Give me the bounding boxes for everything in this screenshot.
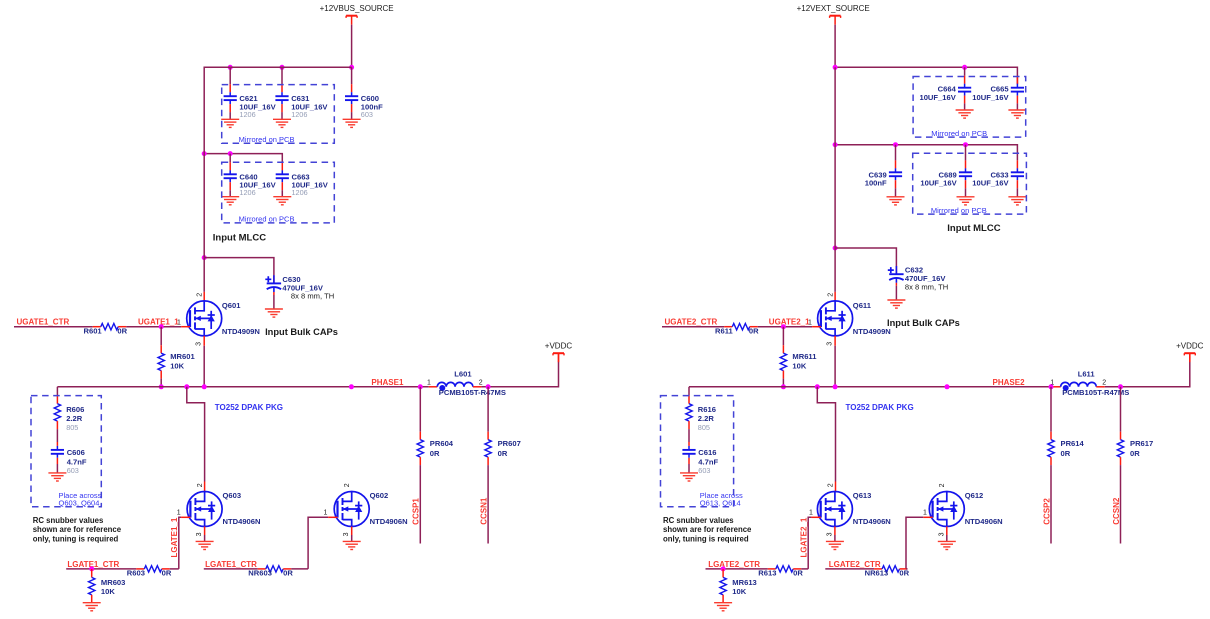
- svg-text:1: 1: [324, 510, 328, 517]
- pin stub Q601 source (3): [203, 336, 205, 346]
- power symbol +VDDC: [1184, 353, 1195, 362]
- wire PR607 to CCSN1: [487, 465, 489, 543]
- svg-text:Q613, Q614: Q613, Q614: [700, 499, 741, 508]
- ground under snubber: [48, 473, 66, 481]
- svg-text:2: 2: [1102, 380, 1106, 387]
- junction UGATE_1 / gate resistor: [781, 324, 786, 329]
- wire rail to snubber: [688, 387, 690, 396]
- wire LGATE1_CTR: [204, 568, 258, 570]
- svg-text:3: 3: [196, 342, 203, 346]
- pin stub C632 1: [895, 266, 897, 274]
- pin stub C633 2: [1016, 180, 1018, 188]
- pin stub Q601 drain (2): [203, 292, 205, 301]
- pin stub R611 1: [724, 326, 732, 328]
- pin stub L601 1: [429, 386, 438, 388]
- transistor Q612 NTD4906N (low side): [929, 492, 964, 527]
- junction MR on phase rail: [159, 384, 164, 389]
- wire Q611 source to phase rail: [834, 346, 836, 387]
- svg-text:1: 1: [808, 319, 812, 326]
- svg-text:3: 3: [343, 532, 350, 536]
- svg-text:PHASE1: PHASE1: [371, 378, 404, 387]
- wire C664 to ground: [964, 103, 966, 110]
- pin stub C631 2: [281, 104, 283, 112]
- svg-text:2: 2: [197, 483, 204, 487]
- pin stub MR613 2: [722, 595, 724, 603]
- svg-text:1206: 1206: [292, 188, 308, 197]
- pin stub R603 2: [162, 568, 170, 570]
- svg-text:Input Bulk CAPs: Input Bulk CAPs: [887, 318, 960, 328]
- pin stub Q601 gate (1): [181, 326, 190, 328]
- wire input bus row 2 right: [835, 145, 1017, 161]
- wire C600 to ground: [351, 112, 353, 119]
- wire UGATE_1 to gate: [758, 326, 812, 328]
- junction MR613 tap: [721, 566, 726, 571]
- capacitor C633: [1011, 168, 1024, 180]
- svg-text:+VDDC: +VDDC: [545, 342, 573, 351]
- svg-text:805: 805: [66, 423, 78, 432]
- svg-text:PR604: PR604: [430, 439, 454, 448]
- resistor R616 2.2R (vertical): [686, 404, 692, 421]
- svg-text:+VDDC: +VDDC: [1176, 342, 1204, 351]
- svg-text:UGATE2_1: UGATE2_1: [769, 317, 810, 326]
- junction C621 tap: [228, 65, 233, 70]
- pin stub C606 2: [56, 458, 58, 464]
- wire rail to snubber: [56, 387, 58, 396]
- pin stub C665 2: [1016, 96, 1018, 104]
- svg-text:0R: 0R: [498, 449, 508, 458]
- wire MR611 top: [782, 327, 784, 346]
- junction C631 tap: [280, 65, 285, 70]
- junction bus row 2 on main: [202, 151, 207, 156]
- svg-text:Mirrored on PCB: Mirrored on PCB: [931, 129, 987, 138]
- ground under C600: [343, 119, 361, 127]
- transistor Q611 NTD4909N (high side): [818, 301, 853, 336]
- junction C664 tap: [962, 65, 967, 70]
- pin stub MR603 2: [91, 595, 93, 603]
- svg-text:0R: 0R: [117, 327, 127, 336]
- svg-text:only, tuning is required: only, tuning is required: [33, 535, 119, 544]
- wire main vertical to high-side FET: [204, 67, 351, 292]
- svg-text:3: 3: [196, 532, 203, 536]
- svg-text:0R: 0R: [283, 568, 293, 577]
- svg-text:3: 3: [938, 532, 945, 536]
- pin stub R601 2: [118, 326, 126, 328]
- svg-text:MR611: MR611: [792, 352, 817, 361]
- pin stub PR614 1: [1050, 432, 1052, 440]
- svg-text:Q603: Q603: [223, 491, 242, 500]
- svg-text:TO252 DPAK PKG: TO252 DPAK PKG: [215, 403, 283, 412]
- junction C640 tap: [228, 151, 233, 156]
- svg-text:805: 805: [698, 423, 710, 432]
- svg-text:8x 8 mm, TH: 8x 8 mm, TH: [905, 282, 948, 291]
- pin stub Q613 source (3): [834, 527, 836, 536]
- svg-text:L611: L611: [1078, 370, 1096, 379]
- pin stub NR603 2: [283, 568, 291, 570]
- pin stub PR617 2: [1120, 457, 1122, 465]
- wire R613 to gate riser: [801, 568, 808, 570]
- pin stub R611 2: [750, 326, 758, 328]
- wire jog rail to Q613 drain: [817, 387, 835, 482]
- pin stub C621 1: [229, 84, 231, 92]
- svg-text:1: 1: [923, 510, 927, 517]
- svg-text:603: 603: [698, 466, 710, 475]
- wire bus to C621: [229, 67, 231, 84]
- ground under C664: [956, 110, 974, 118]
- svg-text:CCSN2: CCSN2: [1112, 497, 1121, 525]
- svg-text:Q611: Q611: [853, 301, 872, 310]
- capacitor C621 10UF_16V: [224, 92, 237, 104]
- resistor PR607 0R (vertical): [485, 440, 491, 457]
- pin stub Q602 source (3): [351, 527, 353, 536]
- wire input bus row 1: [204, 66, 351, 68]
- wire Q603 source to ground: [204, 535, 206, 541]
- svg-text:NR613: NR613: [865, 568, 889, 577]
- svg-text:Input MLCC: Input MLCC: [947, 223, 1000, 234]
- pin stub R616 2: [688, 421, 690, 429]
- ground under C632: [887, 300, 905, 308]
- svg-text:1: 1: [809, 510, 813, 517]
- wire Q612 source to ground: [946, 535, 948, 541]
- dashed box mirrored caps row 1: [222, 85, 335, 144]
- svg-text:NR603: NR603: [248, 568, 272, 577]
- svg-text:NTD4906N: NTD4906N: [853, 517, 891, 526]
- ground under MR603: [83, 603, 101, 611]
- svg-text:R606: R606: [66, 405, 84, 414]
- junction C689 tap: [963, 142, 968, 147]
- wire C689 to ground: [965, 188, 967, 197]
- wire UGATE_CTR: [14, 326, 93, 328]
- capacitor C606 4.7nF: [51, 446, 64, 458]
- resistor PR617 0R (vertical): [1117, 440, 1123, 457]
- wire C631 to ground: [281, 112, 283, 119]
- svg-text:PHASE2: PHASE2: [993, 378, 1026, 387]
- svg-text:Mirrored on PCB: Mirrored on PCB: [931, 206, 987, 215]
- resistor NR603 0R (horizontal): [266, 566, 283, 572]
- ground under snubber: [680, 473, 698, 481]
- pin stub C639 2: [895, 180, 897, 188]
- wire MR601 bottom to phase rail: [160, 379, 162, 387]
- svg-text:NTD4906N: NTD4906N: [370, 517, 408, 526]
- pin stub +VDDC: [558, 354, 560, 362]
- wire C639 to ground: [895, 188, 897, 197]
- junction MR603 tap: [89, 566, 94, 571]
- svg-text:1: 1: [427, 380, 431, 387]
- wire MR601 top: [160, 327, 162, 346]
- ground under Q612: [938, 541, 956, 549]
- wire UGATE_CTR: [662, 326, 724, 328]
- svg-text:LGATE1_1: LGATE1_1: [170, 517, 179, 557]
- resistor PR614 0R (vertical): [1048, 440, 1054, 457]
- ground under MR613: [714, 603, 732, 611]
- svg-text:shown are for reference: shown are for reference: [663, 525, 752, 534]
- svg-text:PR614: PR614: [1061, 439, 1085, 448]
- svg-text:R603: R603: [127, 568, 145, 577]
- pin stub MR601 2: [160, 371, 162, 379]
- wire Q613 source to ground: [834, 535, 836, 541]
- pin stub Q613 gate (1): [811, 516, 820, 518]
- pin stub Q611 gate (1): [812, 326, 821, 328]
- svg-text:C606: C606: [67, 448, 85, 457]
- pin stub +VDDC: [1189, 354, 1191, 362]
- pin stub C632 2: [895, 283, 897, 286]
- pin stub NR603 1: [258, 568, 266, 570]
- svg-text:R616: R616: [698, 405, 716, 414]
- wire R606 to C606: [56, 429, 58, 442]
- svg-text:UGATE1_1: UGATE1_1: [138, 317, 179, 326]
- svg-text:10UF_16V: 10UF_16V: [972, 179, 1009, 188]
- junction MR on phase rail: [781, 384, 786, 389]
- resistor PR604 0R (vertical): [417, 440, 423, 457]
- wire PR607 top: [487, 387, 489, 432]
- pin stub C639 1: [895, 160, 897, 168]
- svg-text:Mirrored on PCB: Mirrored on PCB: [239, 215, 295, 224]
- dashed box mirrored caps row 2: [222, 162, 335, 223]
- pin stub C631 1: [281, 84, 283, 92]
- wire MR611 bottom to phase rail: [782, 379, 784, 387]
- snubber dashed box: [661, 396, 734, 507]
- ground under Q602: [343, 541, 361, 549]
- wire R603 to gate riser: [170, 568, 179, 570]
- transistor Q601 NTD4909N (high side): [187, 301, 222, 336]
- pin stub C606 1: [56, 442, 58, 446]
- svg-text:L601: L601: [454, 370, 472, 379]
- junction PR607 tap: [486, 384, 491, 389]
- resistor NR613 0R (horizontal): [882, 566, 899, 572]
- wire bus to C631: [281, 67, 283, 84]
- junction jog tap on rail: [184, 384, 189, 389]
- junction bus row 2 on main right: [833, 142, 838, 147]
- wire phase rail PHASE1: [57, 386, 428, 388]
- pin stub Q613 drain (2): [835, 482, 837, 492]
- ground under C663: [273, 197, 291, 205]
- resistor R603 0R (horizontal): [144, 566, 161, 572]
- svg-text:2: 2: [827, 483, 834, 487]
- capacitor C663 10UF_16V: [276, 170, 289, 182]
- svg-text:3: 3: [827, 342, 834, 346]
- wire power to bus: [351, 25, 353, 68]
- wire input bus row 1 right: [835, 67, 1017, 84]
- pin stub C600 2: [351, 104, 353, 112]
- inductor L611 PCMB105T-R47MS: [1061, 382, 1097, 391]
- resistor MR611 10K (vertical): [780, 353, 786, 370]
- capacitor C631 10UF_16V: [275, 92, 288, 104]
- capacitor C616 4.7nF: [682, 446, 695, 458]
- svg-text:Q613: Q613: [853, 491, 872, 500]
- snubber dashed box: [31, 396, 101, 507]
- capacitor C639: [889, 168, 902, 180]
- wire bus to C640: [229, 154, 231, 163]
- pin stub R606 2: [56, 421, 58, 429]
- svg-text:100nF: 100nF: [865, 179, 887, 188]
- svg-text:1206: 1206: [239, 110, 255, 119]
- wire Q602 source to ground: [351, 535, 353, 541]
- pin stub NR613 1: [874, 568, 882, 570]
- capacitor C640 10UF_16V: [224, 170, 237, 182]
- pin stub PR604 1: [419, 432, 421, 440]
- svg-text:2: 2: [479, 380, 483, 387]
- svg-text:0R: 0R: [1061, 449, 1071, 458]
- wire C633 to ground: [1016, 188, 1018, 197]
- pin stub MR601 1: [160, 345, 162, 353]
- svg-text:3: 3: [826, 532, 833, 536]
- capacitor C665 10UF_16V: [1011, 84, 1024, 96]
- svg-text:10UF_16V: 10UF_16V: [919, 93, 956, 102]
- wire C640 to ground: [229, 190, 231, 197]
- pin stub MR613 1: [722, 569, 724, 578]
- junction bulk cap tap: [833, 246, 838, 251]
- svg-text:4.7nF: 4.7nF: [67, 457, 87, 466]
- pin stub R613 1: [768, 568, 776, 570]
- svg-text:LGATE2_CTR: LGATE2_CTR: [708, 560, 760, 569]
- pin stub Q612 source (3): [946, 527, 948, 536]
- wire LGATE2_CTR: [825, 568, 874, 570]
- wire C663 to ground: [281, 190, 283, 197]
- svg-text:Q601: Q601: [222, 301, 241, 310]
- wire NR603 to gate riser: [291, 568, 308, 570]
- pin stub Q603 source (3): [204, 527, 206, 536]
- wire bus to C600: [351, 67, 353, 84]
- capacitor C664 10UF_16V: [958, 84, 971, 96]
- svg-text:0R: 0R: [1130, 449, 1140, 458]
- svg-text:only, tuning is required: only, tuning is required: [663, 535, 749, 544]
- resistor R606 2.2R (vertical): [54, 404, 60, 421]
- wire C621 to ground: [229, 112, 231, 119]
- svg-text:1: 1: [177, 319, 181, 326]
- resistor MR601 10K (vertical): [158, 353, 164, 370]
- pin stub C663 1: [281, 162, 283, 170]
- ground under C631: [273, 119, 291, 127]
- pin stub L611 1: [1052, 386, 1061, 388]
- pin stub C689 1: [965, 160, 967, 168]
- wire bus to C664: [964, 67, 966, 76]
- transistor Q613 NTD4906N (low side): [817, 492, 852, 527]
- pin stub Q603 gate (1): [181, 516, 190, 518]
- pin stub NR613 2: [900, 568, 908, 570]
- pin stub C616 1: [688, 442, 690, 446]
- pin stub PR607 2: [487, 457, 489, 465]
- svg-text:603: 603: [67, 466, 79, 475]
- junction high FET source on rail: [202, 384, 207, 389]
- svg-text:1206: 1206: [239, 188, 255, 197]
- svg-text:2: 2: [344, 483, 351, 487]
- svg-text:+12VBUS_SOURCE: +12VBUS_SOURCE: [320, 4, 394, 13]
- svg-text:1206: 1206: [291, 110, 307, 119]
- svg-text:NTD4906N: NTD4906N: [965, 517, 1003, 526]
- pin stub MR603 1: [91, 569, 93, 578]
- pin stub Q612 gate (1): [923, 516, 932, 518]
- wire inductor to +VDDC: [1105, 362, 1190, 387]
- wire PR614 to CCSP2: [1050, 465, 1052, 543]
- ground under Q603: [196, 541, 214, 549]
- resistor MR613 10K (vertical): [720, 577, 726, 594]
- wire gate riser Q603: [179, 517, 181, 569]
- svg-text:MR603: MR603: [101, 578, 125, 587]
- svg-text:UGATE1_CTR: UGATE1_CTR: [17, 317, 70, 326]
- svg-text:10UF_16V: 10UF_16V: [920, 179, 957, 188]
- svg-text:10K: 10K: [792, 361, 806, 370]
- ground under C640: [221, 197, 239, 205]
- wire bus to C689: [965, 145, 967, 161]
- svg-text:R611: R611: [715, 327, 734, 336]
- svg-text:10K: 10K: [170, 361, 184, 370]
- svg-text:Input Bulk CAPs: Input Bulk CAPs: [265, 327, 338, 337]
- wire gate riser Q612: [906, 517, 923, 569]
- svg-text:8x 8 mm, TH: 8x 8 mm, TH: [291, 292, 334, 301]
- dashed box mirrored caps row 2 right: [913, 153, 1027, 214]
- inductor L601 PCMB105T-R47MS: [437, 382, 473, 391]
- resistor MR603 10K (vertical): [88, 577, 94, 594]
- pin stub C633 1: [1016, 160, 1018, 168]
- transistor Q603 NTD4906N (low side): [187, 492, 222, 527]
- pin stub C664 2: [964, 96, 966, 104]
- wire NR613 to gate riser: [906, 568, 908, 570]
- ground under Q613: [826, 541, 844, 549]
- pin stub C664 1: [964, 76, 966, 84]
- ground under C689: [957, 197, 975, 205]
- pin stub R616 1: [688, 396, 690, 404]
- junction PR614 tap: [1049, 384, 1054, 389]
- svg-text:+12VEXT_SOURCE: +12VEXT_SOURCE: [797, 4, 870, 13]
- wire C665 to ground: [1016, 103, 1018, 110]
- capacitor C600 100nF: [345, 92, 358, 104]
- svg-text:PR607: PR607: [498, 439, 521, 448]
- wire UGATE_1 to gate: [126, 326, 181, 328]
- pin stub R606 1: [56, 396, 58, 404]
- wire main vertical to high-side FET: [834, 67, 836, 292]
- junction bus row1 on main right: [833, 65, 838, 70]
- svg-text:TO252 DPAK PKG: TO252 DPAK PKG: [846, 403, 914, 412]
- pin stub PR617 1: [1120, 432, 1122, 440]
- svg-text:R613: R613: [758, 568, 776, 577]
- junction UGATE_1 / gate resistor: [159, 324, 164, 329]
- svg-text:10UF_16V: 10UF_16V: [972, 93, 1009, 102]
- wire bus to C639: [895, 145, 897, 161]
- junction C639 tap: [893, 142, 898, 147]
- pin stub R601 1: [93, 326, 101, 328]
- pin stub R613 2: [793, 568, 801, 570]
- resistor R611 0R (gate, horizontal): [732, 324, 749, 330]
- svg-text:0R: 0R: [899, 568, 909, 577]
- svg-text:NTD4909N: NTD4909N: [853, 327, 891, 336]
- svg-text:NTD4906N: NTD4906N: [223, 517, 261, 526]
- pin stub L601 2: [473, 386, 482, 388]
- resistor R613 0R (horizontal): [776, 566, 793, 572]
- wire phase rail PHASE2: [689, 386, 1052, 388]
- svg-text:10K: 10K: [732, 587, 746, 596]
- pin stub L611 2: [1096, 386, 1105, 388]
- wire PR604 to CCSP1: [419, 465, 421, 543]
- pin stub Q611 drain (2): [834, 292, 836, 301]
- svg-text:shown are for reference: shown are for reference: [33, 525, 122, 534]
- svg-text:MR601: MR601: [170, 352, 195, 361]
- svg-text:LGATE2_1: LGATE2_1: [800, 517, 809, 557]
- svg-text:RC snubber values: RC snubber values: [33, 516, 104, 525]
- resistor R601 0R (gate, horizontal): [101, 324, 118, 330]
- junction bulk cap tap: [202, 255, 207, 260]
- wire C616 to ground: [688, 464, 690, 473]
- wire LGATE2_CTR: [706, 568, 768, 570]
- wire C606 to ground: [56, 464, 58, 473]
- wire LGATE1_CTR: [66, 568, 136, 570]
- svg-text:NTD4909N: NTD4909N: [222, 327, 260, 336]
- wire jog rail to Q603 drain: [187, 387, 205, 482]
- pin stub C616 2: [688, 458, 690, 464]
- wire to bulk cap: [204, 258, 274, 276]
- wire PR614 top: [1050, 387, 1052, 432]
- pin stub Q611 source (3): [834, 336, 836, 346]
- svg-text:R601: R601: [84, 327, 103, 336]
- pin stub PR607 1: [487, 432, 489, 440]
